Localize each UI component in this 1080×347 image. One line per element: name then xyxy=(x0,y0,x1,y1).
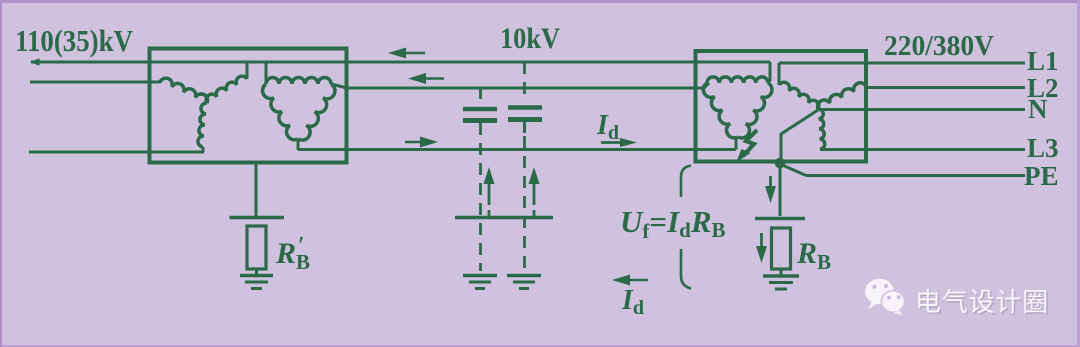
arrowhead xyxy=(484,167,495,184)
wire drop to T2 wye left arm xyxy=(778,63,781,85)
resistor RB body xyxy=(772,228,791,269)
arrow Id down (lower) xyxy=(760,233,763,252)
brace Uf voltage bracket bottom xyxy=(681,249,691,289)
arrow Id earth return left xyxy=(620,279,648,282)
arrowhead xyxy=(420,137,438,148)
winding T2 delta top xyxy=(707,77,768,83)
wire delta bottom vertex drop xyxy=(297,139,300,150)
arrow current line2 left xyxy=(416,77,444,80)
wire line2' 10kV y=88 xyxy=(347,83,709,88)
svg-text:10kV: 10kV xyxy=(500,22,560,55)
wire L1 inner hookup y=63 xyxy=(779,62,1025,65)
svg-text:N: N xyxy=(1028,94,1048,124)
arrowhead line1 start xyxy=(30,58,40,66)
resistor RB' top bar xyxy=(230,216,285,220)
capacitor C2 plates xyxy=(508,105,542,110)
winding T1 delta left side xyxy=(263,84,298,140)
brace Uf voltage bracket top xyxy=(681,166,691,198)
winding T1 wye left arm xyxy=(160,78,208,103)
wire RB to ground xyxy=(780,269,783,275)
transformer T2 box xyxy=(696,51,867,162)
ground RB' xyxy=(240,274,273,278)
winding T1 wye down arm xyxy=(198,103,207,147)
ground C2 xyxy=(507,274,541,278)
wire drop to left delta TL vertex xyxy=(265,62,268,84)
node junction dot xyxy=(775,158,786,169)
wire line2 110kV y=82 xyxy=(30,81,161,84)
arrowhead xyxy=(408,73,426,84)
wire wye bottom to line3 xyxy=(202,147,205,152)
winding T2 delta left side xyxy=(703,83,738,138)
svg-text:L3: L3 xyxy=(1027,133,1059,163)
winding T2 wye left arm xyxy=(779,82,819,109)
winding T1 delta top xyxy=(266,78,331,84)
arrow current line1 left xyxy=(396,52,425,55)
wire line3' 10kV y=150 xyxy=(298,148,736,151)
capacitor C1 lower dashed lead xyxy=(479,123,482,271)
svg-text:220/380V: 220/380V xyxy=(884,30,994,62)
svg-text:PE: PE xyxy=(1024,161,1059,191)
arrow capacitive current up C2 xyxy=(533,180,536,205)
arrowhead xyxy=(620,138,637,147)
wire L2 output y=88 xyxy=(866,86,1025,89)
winding T2 wye right arm xyxy=(818,83,866,109)
svg-text:110(35)kV: 110(35)kV xyxy=(15,23,134,58)
wire N output y=109.5 xyxy=(816,108,1025,111)
wire drop to left wye right arm xyxy=(246,62,249,79)
arrowhead xyxy=(529,167,540,184)
arrowhead xyxy=(388,48,406,59)
wire delta bottom lead xyxy=(735,137,738,150)
ground C1 xyxy=(463,274,497,278)
capacitor C1 dashed lead xyxy=(479,88,482,104)
wire equipotential bar y=217 xyxy=(455,216,553,220)
wire L3 output y=148.5 xyxy=(820,148,1025,151)
fault lightning bolt xyxy=(743,130,757,156)
wire drop line1 to T2 delta TR xyxy=(768,62,770,83)
capacitor C1 plates xyxy=(463,107,497,112)
arrow Id down (upper) xyxy=(769,176,772,195)
arrow capacitive current up C1 xyxy=(488,180,491,205)
svg-text:RB′: RB′ xyxy=(275,233,310,274)
svg-text:Uf=IdRB: Uf=IdRB xyxy=(620,204,726,243)
resistor RB' lead from T1 xyxy=(255,161,258,216)
watermark wechat logo small bubble xyxy=(881,291,904,316)
wire neutral diagonal to dot xyxy=(781,110,818,158)
winding T2 delta right side xyxy=(738,83,772,138)
wire PE diagonal xyxy=(780,164,806,176)
svg-text:L1: L1 xyxy=(1027,46,1059,76)
winding T1 wye right arm xyxy=(206,76,247,103)
arrow current line3 right xyxy=(405,141,430,144)
resistor RB' body xyxy=(247,226,266,269)
resistor RB top bar xyxy=(755,217,805,221)
ground RB xyxy=(763,274,799,278)
capacitor C2 lower dashed lead xyxy=(523,136,526,271)
winding T2 wye down arm xyxy=(818,109,825,149)
wire RB' to ground xyxy=(255,269,258,275)
wire RB lead from dot xyxy=(779,165,782,216)
wire line3 110kV y=152 xyxy=(29,151,204,154)
watermark wechat logo big bubble xyxy=(865,279,894,310)
capacitor C2 stub xyxy=(523,122,526,133)
winding T1 delta right side xyxy=(298,84,335,140)
wire delta TR vertex to 10kV line2 xyxy=(331,84,347,88)
wire line1 110kV/10kV phase A y=62 xyxy=(31,61,770,64)
capacitor C2 dashed lead xyxy=(523,62,526,102)
svg-text:电气设计圈: 电气设计圈 xyxy=(915,287,1049,317)
transformer T1 box xyxy=(150,49,347,163)
wire PE output y=175.5 xyxy=(806,174,1025,177)
arrow Id fault current right (mid) xyxy=(601,141,625,144)
